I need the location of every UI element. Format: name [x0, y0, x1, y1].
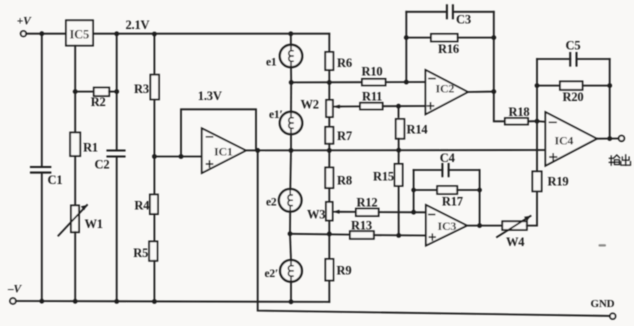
wire e2' to -V rail [290, 282, 292, 302]
junction R13 line at R15 [396, 233, 401, 238]
resistor R15 [373, 164, 403, 186]
resistor R18 [505, 105, 530, 125]
wire R13 node to R9 [328, 234, 330, 259]
resistor R12 [356, 196, 379, 217]
wire R14 top stub [398, 106, 400, 117]
junction on top rail at sensor chain branch [288, 31, 293, 36]
wire IC1 feedback loop [181, 109, 256, 156]
resistor R8 [325, 168, 352, 189]
resistor R14 [396, 119, 429, 139]
junction R12 line at C4 loop vertical [411, 210, 416, 215]
junction IC4 minus node [535, 119, 540, 124]
wire W2 to R7 [328, 117, 330, 127]
wire R5 to -V rail [153, 261, 155, 302]
wire R10 to IC2 minus [386, 81, 426, 83]
junction -V rail at C1 [39, 299, 44, 304]
wire R7 to mid line [328, 144, 330, 151]
wire R14 to mid line [398, 139, 400, 151]
wire e2 to e2 junction [289, 212, 291, 234]
wire C4 loop right vertical [479, 170, 481, 226]
svg-text:R18: R18 [509, 105, 530, 119]
op-amp IC1 [202, 128, 246, 173]
svg-text:C2: C2 [95, 158, 110, 172]
resistor R7 [325, 127, 352, 144]
resistor R1 [70, 133, 98, 157]
wire IC2 output down to R18 [494, 92, 505, 122]
junction R2 right [114, 89, 119, 94]
wire R3 rail top stub [153, 34, 155, 75]
resistor R2 [77, 88, 116, 109]
svg-text:R17: R17 [442, 195, 463, 209]
svg-text:IC2: IC2 [436, 82, 455, 96]
wire C1 rail lower [41, 173, 43, 302]
wire R15 top stub [398, 150, 400, 164]
wire W1 to -V rail [74, 232, 76, 301]
wire R1 to W1 [74, 156, 76, 205]
junction right vertical at R16 line [491, 35, 496, 40]
resistor R9 [325, 259, 351, 281]
wire C4 loop left vertical [413, 170, 415, 212]
op-amp IC3 [426, 205, 467, 246]
wire R4 to R5 [153, 214, 155, 241]
junction on top rail at R3 branch [152, 32, 157, 37]
junction left vertical at R20 line [535, 83, 540, 88]
capacitor C1 [31, 167, 62, 187]
svg-text:R13: R13 [351, 219, 372, 233]
node +V terminal [17, 16, 32, 37]
wire GND dropline and bottom GND bus [258, 150, 610, 316]
resistor R20 [537, 81, 610, 104]
wire IC4 minus stub [537, 120, 545, 123]
svg-text:R9: R9 [337, 264, 352, 278]
sensor e1 [266, 45, 302, 69]
capacitor C5 [537, 39, 610, 66]
svg-text:R3: R3 [134, 82, 149, 96]
junction IC3 output at loop vertical [477, 223, 482, 228]
wire R12 to IC3 minus input [379, 211, 426, 213]
svg-text:R2: R2 [91, 95, 106, 109]
junction mid line at sensor chain [289, 148, 294, 153]
svg-text:R15: R15 [373, 170, 394, 184]
svg-text:C1: C1 [48, 173, 63, 187]
junction IC2 output node [491, 89, 496, 94]
wire mid virtual-ground line IC1 output to IC4 plus input [246, 149, 546, 151]
wire R13 to IC3 plus input [374, 234, 426, 236]
junction mid line at GND dropline [255, 148, 260, 153]
svg-text:R16: R16 [438, 42, 459, 56]
wire IC5 ADJ stub [74, 46, 76, 133]
resistor R5 [133, 241, 157, 260]
resistor R11 [360, 90, 383, 110]
wire mid line to R8 [328, 150, 330, 167]
resistor R16 [406, 34, 494, 56]
capacitor C3 [406, 5, 494, 26]
IC5 regulator U-IC5 [66, 20, 93, 45]
junction 1.3V tap [152, 154, 157, 159]
junction rail at R10 line [327, 80, 332, 85]
wire R18 to IC4 minus node [528, 120, 537, 122]
resistor R13 [350, 219, 374, 239]
svg-text:R6: R6 [337, 56, 352, 70]
junction R10 line at feedback vertical [404, 80, 409, 85]
junction IC1 feedback tap [179, 154, 184, 159]
wire R6 rail corner from top rail [328, 34, 330, 52]
junction e2/e2' tap [288, 231, 293, 236]
svg-text:IC4: IC4 [555, 134, 574, 148]
junction left vertical at R17 line [411, 188, 416, 193]
junction right vertical at R17 line [477, 188, 482, 193]
potentiometer W1 [58, 205, 102, 236]
wire e1' upper stub [290, 82, 292, 111]
junction R11 line at R14 [396, 104, 401, 109]
wire IC4 output [597, 138, 619, 140]
wire IC2 feedback left vertical [405, 12, 407, 82]
wire C2 rail upper [116, 34, 118, 151]
resistor R6 [325, 52, 352, 70]
svg-text:R20: R20 [563, 90, 584, 104]
svg-text:R7: R7 [337, 129, 352, 143]
svg-text:W1: W1 [85, 217, 103, 231]
svg-text:C5: C5 [566, 39, 581, 53]
wire top +V rail [26, 33, 66, 35]
wire C5/R20 loop left vertical [536, 59, 538, 121]
svg-text:R8: R8 [337, 174, 352, 188]
wire R11 to IC2 plus input [383, 105, 426, 107]
wire C2 rail lower [116, 157, 118, 302]
resistor R10 [362, 65, 386, 86]
wire R6 to bridge node [328, 70, 330, 100]
resistor R3 [134, 75, 159, 100]
wire e2' upper stub [290, 234, 291, 260]
junction R2 left [73, 89, 78, 94]
svg-text:C4: C4 [440, 151, 456, 165]
svg-text:IC1: IC1 [214, 145, 233, 159]
sensor e2 [266, 189, 302, 212]
svg-text:R14: R14 [407, 123, 429, 137]
wire e1 to e1 junction [290, 67, 292, 82]
svg-text:R10: R10 [362, 65, 383, 79]
wire IC3 output [467, 225, 502, 227]
wire R13 line from e2/e2' tap [290, 233, 350, 236]
wire C1 rail upper [41, 34, 43, 167]
junction rail at R13 line [327, 232, 332, 237]
svg-text:W4: W4 [506, 235, 525, 249]
junction mid line at R14/R15 rail [396, 148, 401, 153]
node output terminal [619, 136, 625, 142]
wire IC1 input from 1.3V tap [154, 156, 201, 158]
svg-text:e2: e2 [266, 197, 277, 209]
junction e1/e1' tap [289, 80, 294, 85]
resistor R4 [134, 195, 158, 215]
svg-text:R19: R19 [548, 175, 569, 189]
svg-text:–V: –V [7, 284, 23, 296]
wire e1' to mid line [290, 134, 292, 150]
node -V terminal [7, 284, 23, 304]
wire -V bottom rail [16, 300, 329, 303]
node output label (Chinese shu-chu) [609, 155, 630, 165]
wire R10 line bridge to IC2 inverting input [291, 81, 362, 83]
wire IC2 feedback right vertical [493, 12, 495, 92]
junction -V rail at e2' [289, 299, 294, 304]
capacitor C2 [95, 151, 125, 172]
svg-text:R11: R11 [362, 90, 382, 104]
wire C5/R20 loop right vertical [609, 59, 611, 139]
wire R12 line W3 wiper to IC3 minus [339, 211, 356, 213]
potentiometer W3 [307, 202, 341, 222]
wire top 2.1V rail from IC5 to R6 corner [93, 33, 329, 35]
wire R15 to R13 line [398, 186, 400, 236]
svg-text:R1: R1 [83, 141, 98, 155]
wire sensor chain top stub [290, 34, 292, 45]
capacitor C4 [414, 151, 480, 176]
svg-text:e1: e1 [266, 57, 277, 69]
svg-text:e1′: e1′ [269, 109, 283, 121]
wire R11 line W2 wiper to IC2 plus [339, 105, 360, 107]
wire R3 to R4 (1.3V node rail) [153, 99, 155, 194]
junction -V rail at R5 [152, 299, 157, 304]
sensor e2' [265, 260, 302, 282]
potentiometer W4 [497, 216, 531, 249]
node GND terminal [591, 298, 616, 319]
svg-text:IC5: IC5 [70, 28, 90, 42]
wire R8 to W3 [328, 188, 330, 202]
svg-text:IC3: IC3 [438, 219, 457, 233]
junction IC4 output node [607, 136, 612, 141]
svg-text:W3: W3 [307, 208, 325, 222]
svg-text:R5: R5 [133, 246, 148, 260]
potentiometer W2 [301, 98, 342, 118]
junction on top rail at C1 branch [39, 31, 44, 36]
junction mid line at R7/R8 rail [327, 148, 332, 153]
wire W4 to R19 corner [527, 191, 537, 225]
svg-text:R12: R12 [357, 196, 378, 210]
junction right vertical at R20 line [607, 83, 612, 88]
resistor R17 [414, 186, 480, 208]
svg-text:1.3V: 1.3V [198, 89, 222, 103]
scan speck [599, 244, 607, 246]
junction -V rail at W1 [73, 299, 78, 304]
wire R9 to -V rail corner [328, 281, 330, 302]
junction left vertical at R16 line [404, 35, 409, 40]
svg-text:2.1V: 2.1V [126, 18, 150, 32]
op-amp IC2 [426, 70, 468, 114]
op-amp IC4 [545, 112, 596, 166]
sensor e1' [269, 109, 302, 134]
svg-text:W2: W2 [301, 98, 319, 112]
junction on top rail at C2 branch [114, 31, 119, 36]
svg-text:R4: R4 [134, 199, 150, 213]
wire W3 to R13 line [328, 221, 330, 234]
wire R19 to IC4 minus node (crosses mid line) [536, 121, 538, 171]
wire IC2 output [468, 91, 494, 93]
svg-text:C3: C3 [456, 13, 471, 27]
wire mid line to e2 [289, 150, 292, 189]
svg-text:GND: GND [591, 298, 615, 310]
junction -V rail at C2 [114, 299, 119, 304]
resistor R19 [532, 171, 568, 191]
svg-text:+V: +V [17, 16, 32, 28]
svg-text:e2′: e2′ [265, 268, 279, 280]
